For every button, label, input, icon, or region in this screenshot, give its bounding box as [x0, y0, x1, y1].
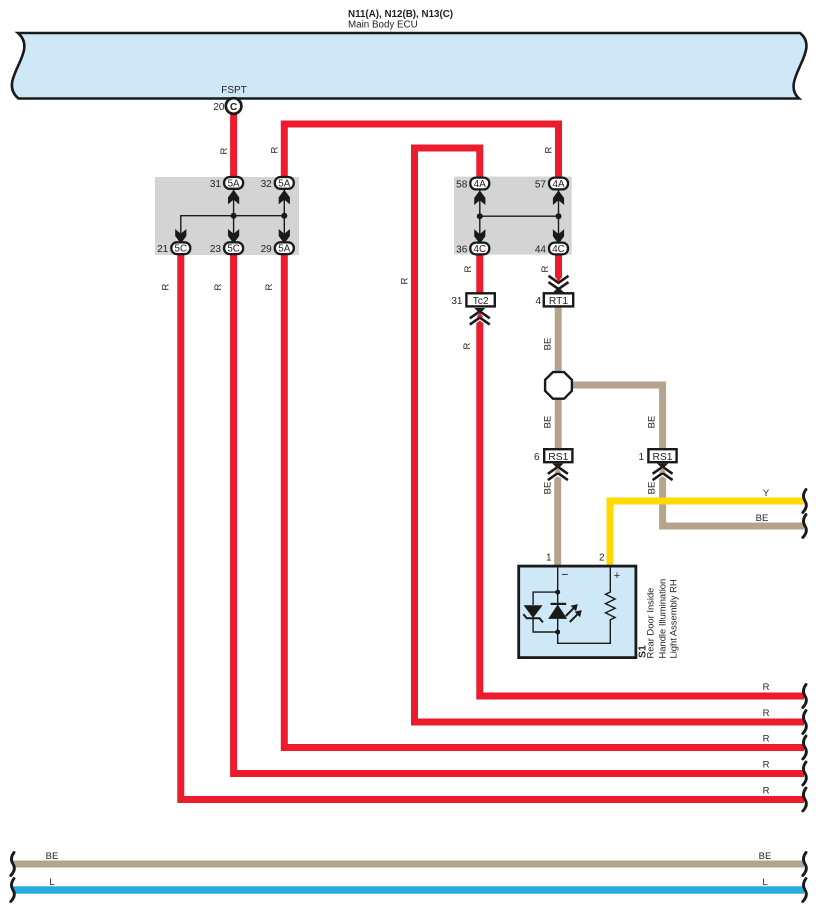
svg-text:BE: BE [647, 416, 658, 429]
svg-text:R: R [400, 277, 411, 284]
resistor in S1 [606, 566, 616, 620]
svg-text:1: 1 [638, 452, 644, 463]
svg-text:BE: BE [543, 416, 554, 429]
wire R from pin 44 down to RT1 [555, 252, 562, 284]
pin 31 oval 5A [210, 177, 243, 190]
svg-text:21: 21 [157, 244, 169, 255]
wire R from connector C20 to pin 31 [230, 110, 237, 178]
wire R from pin 23 down and right to edge [234, 252, 804, 774]
wire R from pin 21 down and right to edge [181, 252, 804, 800]
connector block left (gray) [155, 177, 299, 255]
svg-text:R: R [270, 146, 281, 153]
svg-text:4C: 4C [474, 244, 487, 255]
LED in S1 [548, 604, 582, 622]
svg-text:5C: 5C [175, 244, 188, 255]
svg-text:31: 31 [210, 179, 222, 190]
wire R from Tc2 down and right to edge [480, 316, 804, 696]
pin 44 oval 4C [535, 243, 568, 256]
svg-text:R: R [763, 734, 770, 745]
wire BE from RS1 pin 1 down and right to edge [663, 472, 804, 527]
pin 21 oval 5C [157, 242, 190, 255]
svg-text:R: R [264, 283, 275, 290]
torn-end squiggles right side [11, 490, 807, 902]
pin 58 oval 4A [456, 178, 489, 191]
svg-text:4A: 4A [553, 179, 565, 190]
svg-text:2: 2 [599, 553, 605, 564]
svg-text:RS1: RS1 [652, 452, 672, 463]
zener diode in S1 [523, 605, 543, 622]
svg-text:R: R [540, 265, 551, 272]
wire BE from octagon right to RS1 pin 1 [570, 385, 663, 450]
svg-text:5A: 5A [228, 178, 240, 189]
wire R from pin 29 down and right to edge [284, 252, 804, 748]
svg-text:BE: BE [543, 338, 554, 351]
svg-text:1: 1 [546, 553, 552, 564]
svg-text:−: − [561, 568, 568, 582]
S1 lamp assembly box [519, 553, 636, 658]
wire BE from RT1 to junction octagon [555, 307, 562, 372]
svg-text:R: R [544, 146, 555, 153]
svg-text:23: 23 [210, 244, 222, 255]
chevron down above RT1 [549, 276, 569, 293]
S1 internal wiring [558, 566, 611, 643]
wire Y from S1 pin 2 up and right to edge [610, 501, 804, 566]
svg-text:5A: 5A [278, 178, 290, 189]
wire L bottom horizontal [13, 886, 804, 894]
svg-text:57: 57 [535, 179, 547, 190]
svg-text:BE: BE [756, 513, 769, 524]
junction octagon [545, 372, 572, 399]
chevron up below RS1 pin 1 [653, 464, 673, 481]
svg-text:R: R [213, 283, 224, 290]
svg-text:Handle Illumination: Handle Illumination [657, 579, 668, 659]
wire R from pin 58 up, left, and down to right edge [415, 148, 805, 722]
pin 29 oval 5A [261, 242, 294, 255]
svg-text:6: 6 [534, 452, 540, 463]
svg-text:BE: BE [543, 482, 554, 495]
wire BE from RS1 pin 6 down to S1 pin 1 [554, 472, 561, 567]
svg-text:FSPT: FSPT [221, 85, 247, 96]
svg-text:BE: BE [759, 851, 772, 862]
wire BE from octagon to RS1 pin 6 [555, 398, 562, 450]
svg-text:L: L [762, 877, 767, 888]
connector RS1 pin 6 [534, 449, 572, 463]
Main Body ECU band [12, 33, 807, 99]
svg-text:Rear Door Inside: Rear Door Inside [645, 588, 656, 659]
label Main Body ECU title [348, 9, 453, 31]
connector RS1 pin 1 [638, 449, 676, 463]
svg-text:R: R [219, 147, 230, 154]
svg-text:RS1: RS1 [548, 452, 568, 463]
wire R from pin 36 down to Tc2 [476, 252, 483, 294]
wire labels R at right edge [763, 682, 770, 797]
pin 57 oval 4A [535, 178, 568, 191]
svg-text:R: R [763, 786, 770, 797]
pin 32 oval 5A [261, 177, 294, 190]
svg-text:Light Assembly RH: Light Assembly RH [668, 579, 679, 658]
pin 36 oval 4C [456, 243, 489, 256]
svg-text:29: 29 [261, 244, 273, 255]
svg-text:4: 4 [535, 296, 541, 307]
svg-text:C: C [230, 102, 237, 113]
svg-text:R: R [763, 760, 770, 771]
svg-text:R: R [161, 283, 172, 290]
svg-text:44: 44 [535, 244, 547, 255]
svg-text:32: 32 [261, 179, 273, 190]
connector C20 circle [213, 98, 241, 114]
svg-text:RT1: RT1 [549, 296, 569, 307]
svg-text:5A: 5A [278, 244, 290, 255]
svg-text:+: + [614, 570, 620, 582]
svg-text:L: L [49, 877, 54, 888]
svg-text:31: 31 [451, 296, 463, 307]
wire BE bottom horizontal [13, 861, 804, 868]
svg-text:4C: 4C [552, 244, 565, 255]
svg-text:20: 20 [213, 102, 225, 113]
svg-text:R: R [763, 708, 770, 719]
svg-text:R: R [463, 265, 474, 272]
pin 23 oval 5C [210, 242, 243, 255]
wire R from pin 32 up over to pin 57 [284, 124, 558, 178]
svg-text:Tc2: Tc2 [473, 296, 489, 307]
svg-text:R: R [763, 682, 770, 693]
wire labels BE bottom [46, 851, 772, 862]
svg-text:N11(A), N12(B), N13(C): N11(A), N12(B), N13(C) [348, 9, 453, 20]
svg-text:Main Body ECU: Main Body ECU [348, 20, 418, 31]
connector block right (gray) [454, 177, 572, 255]
svg-text:5C: 5C [227, 244, 240, 255]
svg-text:4A: 4A [474, 179, 486, 190]
chevron up below RS1 pin 6 [548, 464, 568, 481]
svg-text:Y: Y [763, 488, 770, 499]
svg-text:BE: BE [647, 482, 658, 495]
svg-text:R: R [462, 342, 473, 349]
svg-text:BE: BE [46, 851, 59, 862]
wire labels L bottom [49, 877, 767, 888]
svg-text:58: 58 [456, 179, 468, 190]
connector RT1 [535, 293, 573, 307]
chevron up below Tc2 [470, 308, 490, 325]
svg-text:36: 36 [456, 244, 468, 255]
connector Tc2 [451, 293, 494, 307]
S1 rotated labels [637, 579, 679, 659]
